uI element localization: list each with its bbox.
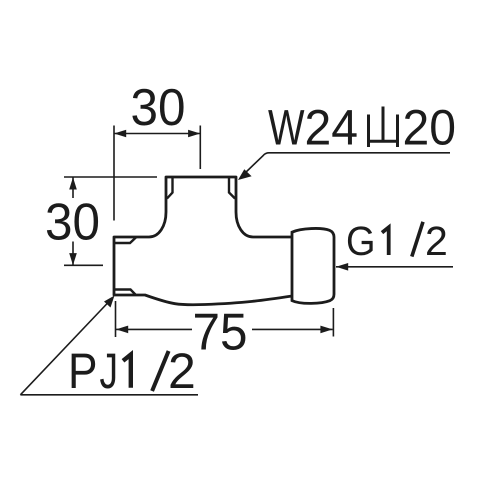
leader arrowhead PJ1/2	[104, 296, 115, 308]
leader underline W24yama20	[243, 153, 451, 176]
dimension 30 (left): up arrowhead	[69, 177, 77, 189]
dimension 30 (top): left arrowhead	[114, 130, 126, 138]
label G1/2 digit 1	[382, 227, 389, 255]
svg-text:20: 20	[403, 100, 457, 156]
label G1/2 slash	[412, 222, 423, 257]
svg-text:75: 75	[193, 304, 248, 362]
label PJ1/2 slash	[152, 351, 169, 391]
dimension 30 (top): extension line left	[113, 126, 115, 221]
top opening chamfer left	[167, 178, 173, 199]
dimension 75 (bottom): dimension line left part	[116, 328, 192, 330]
dimension 75 (bottom): dimension line right part	[252, 328, 333, 330]
svg-text:G: G	[346, 218, 376, 264]
dimension 30 (top): extension line right (center of spout)	[199, 126, 201, 170]
valve body outline	[114, 177, 292, 305]
label PJ1/2 digit 1	[123, 355, 131, 388]
leader line G1/2	[336, 266, 453, 268]
label W24yama20: yama glyph	[367, 107, 399, 148]
top opening chamfer right	[229, 178, 235, 199]
dimension 30 (top): right arrowhead	[188, 130, 200, 138]
dimension 75 (bottom): right extension line	[332, 308, 334, 337]
left stub bottom chamfer	[115, 290, 136, 295]
leader underline PJ1/2	[20, 394, 198, 396]
svg-text:2: 2	[425, 218, 448, 264]
leader arrowhead W24yama20	[238, 169, 252, 180]
svg-text:30: 30	[45, 194, 100, 252]
dimension 75 (bottom): right arrowhead	[320, 326, 332, 334]
outlet socket cylinder (G1/2)	[292, 228, 334, 303]
dimension 30 (left): bottom extension line	[64, 264, 103, 266]
dimension 30 (left): dimension line lower part	[72, 242, 74, 266]
dimension 30 (top): dimension line	[114, 133, 200, 135]
svg-text:P: P	[68, 343, 98, 399]
svg-text:24: 24	[305, 100, 359, 156]
dimension 30 (left): down arrowhead	[69, 253, 77, 265]
dimension 75 (bottom): left arrowhead	[116, 326, 128, 334]
dimension 75 (bottom): left extension line	[115, 301, 117, 337]
dimension 30 (left): top extension line	[64, 176, 157, 178]
leader arrowhead G1/2	[336, 263, 348, 271]
svg-text:30: 30	[131, 79, 186, 137]
dimension 30 (left): dimension line upper part	[72, 177, 74, 198]
svg-text:J: J	[100, 343, 119, 399]
svg-text:2: 2	[168, 343, 196, 399]
leader line PJ1/2	[20, 301, 110, 395]
svg-text:W: W	[268, 100, 305, 156]
left stub top chamfer	[115, 237, 137, 243]
